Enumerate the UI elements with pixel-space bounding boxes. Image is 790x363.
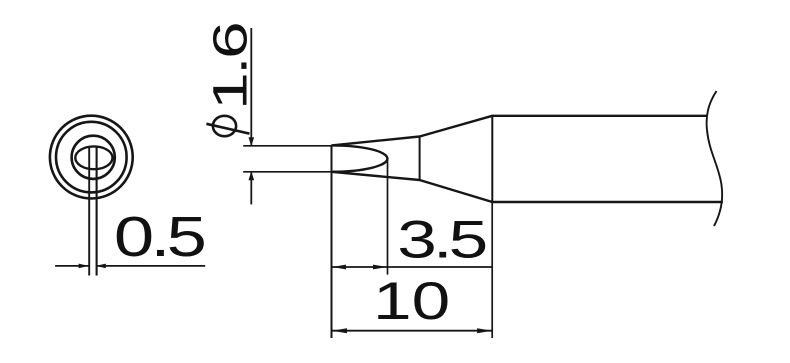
chisel edge line right	[96, 147, 98, 276]
svg-text:1.6: 1.6	[204, 23, 257, 110]
svg-text:0.5: 0.5	[114, 204, 205, 268]
phi 1.6 dimension	[243, 28, 331, 204]
wedge/cone boundary	[419, 136, 421, 181]
cylinder top edge	[492, 115, 707, 117]
bevel face half-ellipse	[332, 145, 387, 171]
arrowhead right at cylinder ext (10)	[477, 328, 492, 333]
arrowhead left at tip face ext (10)	[332, 328, 347, 333]
label phi1.6: phi slash	[206, 124, 249, 134]
ext line below cylinder start	[491, 203, 493, 338]
label phi1.6: custom phi symbol (circle)	[213, 116, 236, 136]
dim line lower	[250, 173, 252, 205]
arrowhead down at top ext line	[249, 137, 255, 146]
dim line 3.5	[332, 266, 493, 268]
dim line 10	[332, 330, 493, 332]
middle circle	[72, 136, 115, 179]
svg-text:3.5: 3.5	[397, 210, 486, 269]
break line (S curve)	[707, 91, 723, 226]
arrowhead pointing left at right chisel line	[96, 264, 106, 269]
cone bottom edge	[420, 180, 493, 202]
svg-text:10: 10	[373, 272, 450, 331]
10 dimension	[332, 203, 493, 338]
ext line at bevel end	[387, 159, 389, 275]
cylinder start	[491, 115, 493, 203]
arrowhead left at tip face ext	[332, 265, 346, 270]
arrowhead up at bottom ext line	[249, 171, 255, 180]
outer circle	[50, 116, 133, 199]
cylinder bottom edge	[492, 201, 723, 203]
inner ellipse (chisel face end)	[75, 146, 112, 169]
3.5 dimension	[332, 159, 493, 275]
arrowhead pointing right at left chisel line	[79, 264, 89, 269]
wedge top edge	[332, 137, 420, 146]
second ring	[56, 122, 127, 193]
dim line 0.5 right segment	[97, 265, 206, 267]
chisel edge line left	[88, 147, 90, 276]
cone top edge	[420, 116, 493, 137]
dim line 0.5 left segment	[55, 265, 88, 267]
ext line top	[243, 145, 331, 147]
ext line bottom	[243, 171, 331, 173]
dim line upper	[250, 28, 252, 145]
tip face + extension line down	[331, 145, 333, 338]
wedge bottom edge	[332, 172, 420, 180]
arrowhead right at bevel ext	[373, 265, 387, 270]
